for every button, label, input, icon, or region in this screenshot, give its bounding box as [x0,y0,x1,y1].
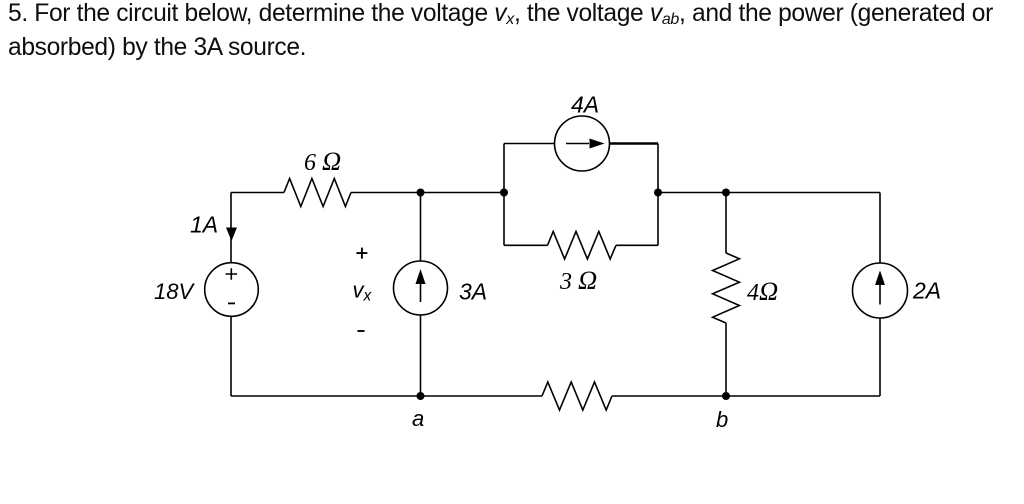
wire from 4ohm resistor down to node b [725,323,727,396]
resistor 3 Ohm [548,232,617,260]
label plus above vx [356,248,367,259]
wire left vertical from 18V source up to top wire [230,193,232,263]
svg-text:2A: 2A [912,278,941,304]
current source 2A circle [853,263,908,318]
4A source arrow [566,143,589,145]
svg-text:3A: 3A [459,279,487,305]
wire box top to 4A circle [504,143,555,145]
svg-text:b: b [716,407,728,432]
node b junction dot [722,392,730,400]
wire box left vertical up [503,144,505,193]
wire box bottom left to 3ohm resistor [504,244,548,246]
wire box right vertical down to node [657,144,659,193]
node junction right side of box [654,189,662,197]
voltage source 18V circle [205,263,259,317]
svg-text:4A: 4A [571,92,599,118]
wire from 4A circle to box top-right corner [610,142,659,144]
svg-text:a: a [412,406,424,431]
wire top middle from resistor to box-left node [351,192,504,194]
2A source arrow [879,285,881,305]
wire bottom left segment [231,395,542,397]
1A current direction arrowhead [226,228,237,242]
wire from node down to 3A source [420,193,422,262]
current source 3A circle [394,261,448,315]
problem statement text [8,0,1018,63]
node junction above 3A source [417,189,425,197]
wire bottom right segment [612,395,880,397]
wire from 2A source down to bottom-right corner [879,318,881,396]
svg-text:3 Ω: 3 Ω [559,265,597,295]
label minus below vx [358,330,365,332]
wire left vertical from bottom up to 18V source [230,316,232,396]
wire main from box to right edge [658,192,880,194]
wire box bottom right from resistor to corner [616,244,658,246]
wire from node down to 4ohm resistor [725,193,727,254]
18V plus sign [226,268,237,279]
wire box left vertical down [503,193,505,246]
resistor 6 Ohm [284,179,351,207]
current source 4A circle [555,116,610,171]
resistor 4 Ohm vertical [713,253,740,323]
svg-text:18V: 18V [154,279,195,304]
resistor bottom unlabeled [542,382,612,410]
18V minus sign [228,302,235,304]
wire box right vertical up from bottom branch [657,193,659,246]
node junction left side of 4A/3ohm box [500,189,508,197]
svg-text:1A: 1A [190,212,218,238]
3A source arrow [420,283,422,302]
node a junction dot [417,392,425,400]
svg-text:4Ω: 4Ω [747,276,778,306]
wire from 3A source down to node a [420,315,422,396]
svg-text:6 Ω: 6 Ω [304,146,341,176]
wire top-left from 18V branch to 6ohm resistor [231,192,284,194]
node junction above 4ohm resistor [722,189,730,197]
svg-text:vx: vx [353,278,373,305]
wire right vertical from top wire down to 2A source [879,193,881,264]
